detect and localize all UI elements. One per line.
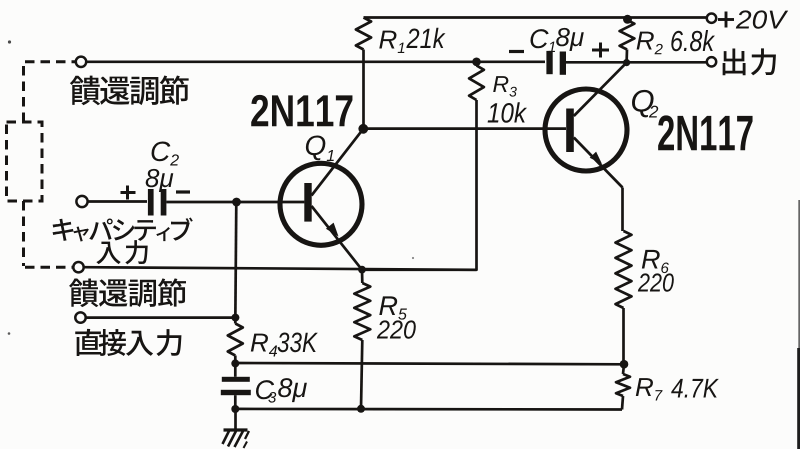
node R5 bottom on bus B xyxy=(357,405,365,413)
label 2N117 Q1 xyxy=(251,95,268,126)
capacitor C3 plate bottom xyxy=(221,390,251,395)
dashed wire box top stub xyxy=(22,64,25,123)
label C1 xyxy=(530,29,548,48)
node R2 bottom / Q2 collector / output junction xyxy=(623,59,630,66)
label R2 xyxy=(637,32,654,50)
transistor Q1 base bar xyxy=(304,183,311,222)
wire R5 bottom xyxy=(361,340,362,409)
wire R1 bottom to Q1 collector node xyxy=(362,50,365,129)
terminal feedback top xyxy=(76,57,86,67)
ground hatch strokes xyxy=(223,431,230,444)
wire top supply rail xyxy=(364,16,708,19)
label 6.8k xyxy=(671,31,683,52)
label 220 R5 xyxy=(377,320,390,338)
node direct input junction xyxy=(231,314,239,322)
terminal capacitive input xyxy=(76,196,87,207)
label 4.7K xyxy=(671,379,683,398)
label C1 plus xyxy=(592,49,609,52)
Q1 collector lead xyxy=(312,129,364,196)
wire R4 branch vertical xyxy=(235,202,236,324)
label 10k xyxy=(488,103,499,122)
dashed wire box bottom stub xyxy=(22,201,25,266)
node Q1 collector junction xyxy=(358,124,368,134)
wire bus line B xyxy=(235,408,622,411)
resistor R1 xyxy=(356,18,371,50)
label direct-input (kanji) xyxy=(75,329,101,356)
capacitor C2 plate left xyxy=(148,189,154,216)
scan edge artifact dark xyxy=(797,348,800,449)
transistor Q1 circle xyxy=(280,163,362,245)
Q1 emitter arrow xyxy=(326,223,339,237)
resistor R2 xyxy=(620,20,635,50)
label input (kanji) xyxy=(96,242,120,265)
wire output line right of C1 xyxy=(565,61,707,64)
label R6 xyxy=(642,250,660,269)
wire feedback/output line left of C1 xyxy=(86,60,545,63)
Q1 emitter lead xyxy=(312,206,363,270)
label Q1 xyxy=(306,135,325,160)
wire Q2 emitter vertical xyxy=(621,188,624,232)
node input branch junction xyxy=(232,198,241,207)
label 220 R6 xyxy=(638,273,650,291)
wire R3 bottom L-wire to emitter line xyxy=(362,100,477,270)
label R4 xyxy=(251,334,268,352)
transistor Q2 circle xyxy=(545,89,627,171)
capacitor C3 plate top xyxy=(222,377,250,382)
terminal feedback bottom xyxy=(73,262,83,272)
resistor R6 xyxy=(616,231,632,308)
node C3 bottom on bus B xyxy=(231,405,239,413)
label Q2 xyxy=(632,90,654,118)
label C2 minus xyxy=(176,190,190,193)
scan speck top-left xyxy=(8,40,11,43)
wire input to C2 xyxy=(88,200,147,203)
dashed external feedback resistor box xyxy=(7,122,43,201)
node R3 top junction xyxy=(472,58,481,67)
terminal direct input xyxy=(75,312,85,322)
resistor R4 xyxy=(228,324,243,356)
terminal output xyxy=(707,57,716,66)
resistor R3 xyxy=(469,66,484,101)
label feedback-adjust bottom (kanji) xyxy=(69,279,98,308)
node Q1 emitter junction xyxy=(358,266,366,274)
label 2N117 Q2 xyxy=(658,115,674,150)
wire feedback bottom line xyxy=(84,267,477,270)
label output (kanji) xyxy=(723,49,746,76)
node R4 bottom on bus A xyxy=(231,359,239,367)
label C1 minus xyxy=(509,50,524,53)
label C2 xyxy=(152,141,171,161)
capacitor C1 plate left xyxy=(546,51,552,74)
capacitor C2 plate right xyxy=(161,189,167,216)
wire Q1 collector node to Q2 base xyxy=(363,127,566,130)
node R6 bottom on bus A xyxy=(620,360,629,369)
resistor R5 xyxy=(361,270,364,283)
ground bar xyxy=(224,428,248,431)
label 20V xyxy=(736,10,751,28)
dashed wire feedback bottom xyxy=(25,266,73,269)
label C2 plus xyxy=(121,191,136,194)
Q2 emitter arrow xyxy=(590,152,602,164)
ground stem xyxy=(234,409,237,429)
wire direct input xyxy=(86,316,233,319)
transistor Q2 base bar xyxy=(566,109,574,153)
label C2 8u xyxy=(146,169,160,187)
scan speck faint xyxy=(412,257,414,259)
dashed wire feedback top xyxy=(25,60,76,63)
label R1 xyxy=(379,31,396,49)
label 33K xyxy=(278,332,290,352)
label feedback-adjust top (kanji) xyxy=(70,76,100,106)
label R7 xyxy=(636,378,653,396)
node R2 top junction xyxy=(623,15,632,24)
label 21k xyxy=(406,28,419,48)
Q2 emitter lead xyxy=(574,138,623,188)
capacitor C1 plate right xyxy=(560,52,566,75)
label R5 xyxy=(379,296,397,315)
label capacitive (katakana) xyxy=(53,219,74,241)
label C3 xyxy=(256,380,274,399)
label +20V plus sign xyxy=(718,18,734,21)
wire C2 to Q1 base xyxy=(166,201,304,204)
scan edge artifact light xyxy=(798,200,800,348)
Q2 collector lead xyxy=(574,63,627,116)
label R3 xyxy=(493,76,508,92)
resistor R7 xyxy=(623,364,624,374)
terminal +20V xyxy=(707,14,716,23)
scan speck mid-left xyxy=(8,332,11,335)
wire bus line A xyxy=(235,363,624,364)
